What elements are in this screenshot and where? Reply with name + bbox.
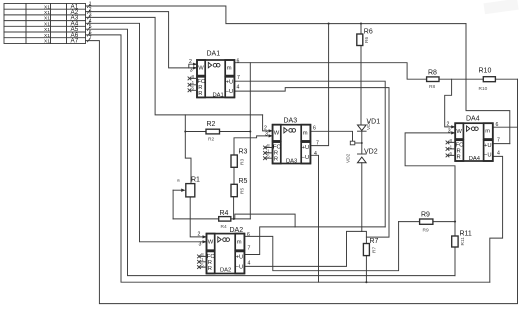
op-amp DA1 <box>189 51 240 99</box>
op-amp DA3 unused pins <box>264 143 273 160</box>
resistor R5 <box>231 178 248 197</box>
op-amp DA3 <box>264 118 319 165</box>
svg-text:4: 4 <box>497 151 500 157</box>
svg-text:2: 2 <box>189 59 192 65</box>
wire pin6 bottom run <box>86 35 490 282</box>
wire supply row R8 R10 <box>439 78 518 80</box>
svg-text:1: 1 <box>450 144 453 150</box>
wire DA1 output feedback vertical <box>249 63 251 219</box>
svg-text:R8: R8 <box>429 84 435 90</box>
resistor R2 <box>206 121 220 143</box>
svg-text:6: 6 <box>496 122 499 128</box>
svg-text:R4: R4 <box>221 224 227 230</box>
svg-text:R3: R3 <box>239 149 248 156</box>
svg-text:VD2: VD2 <box>346 153 352 163</box>
svg-text:W: W <box>456 129 462 135</box>
svg-text:W: W <box>274 131 280 137</box>
svg-text:DA3: DA3 <box>284 118 298 125</box>
svg-text:FC: FC <box>456 143 464 149</box>
svg-text:X1: X1 <box>44 4 50 10</box>
svg-text:R8: R8 <box>428 70 437 77</box>
svg-text:5: 5 <box>192 86 195 92</box>
svg-text:DA1: DA1 <box>213 93 224 99</box>
wire R2 line <box>185 131 250 133</box>
svg-text:+U: +U <box>484 143 492 149</box>
svg-text:m: m <box>227 66 232 72</box>
resistor R1 (trimmer) <box>173 177 200 197</box>
wire pin5 long bottom run <box>86 29 456 275</box>
svg-text:R7: R7 <box>372 247 378 253</box>
wire branch to R2 R1 <box>185 115 191 184</box>
op-amp DA4 unused pins <box>446 138 455 157</box>
svg-text:X1: X1 <box>44 39 50 45</box>
svg-text:X1: X1 <box>44 33 50 39</box>
svg-text:R3: R3 <box>240 159 246 165</box>
svg-text:6: 6 <box>247 232 250 238</box>
wire R1 wiper drop <box>172 190 174 219</box>
resistor R10 <box>479 68 496 92</box>
resistor R7 <box>363 238 378 256</box>
wire DA1 output to R8 <box>234 63 426 79</box>
svg-text:2: 2 <box>198 232 201 238</box>
connector X1 row labels <box>44 3 79 44</box>
wire R7 bottom <box>365 256 367 283</box>
svg-text:2: 2 <box>447 122 450 128</box>
op-amp DA4 <box>447 116 501 162</box>
svg-text:1: 1 <box>201 257 204 263</box>
wire R4 node to +U line <box>235 214 295 227</box>
svg-text:3: 3 <box>199 241 202 247</box>
svg-text:DA2: DA2 <box>220 268 231 274</box>
svg-text:VD1: VD1 <box>366 120 372 130</box>
svg-text:DA4: DA4 <box>469 156 481 162</box>
svg-text:+U: +U <box>226 80 234 86</box>
svg-text:R5: R5 <box>239 178 248 185</box>
svg-text:R10: R10 <box>479 86 488 92</box>
wire DA4 +U stub <box>493 143 510 145</box>
svg-text:A7: A7 <box>71 38 79 45</box>
wire DA2 -U to diode node <box>244 231 361 266</box>
svg-text:X1: X1 <box>44 10 50 16</box>
svg-text:X1: X1 <box>44 21 50 27</box>
svg-text:X1: X1 <box>44 27 50 33</box>
svg-text:5: 5 <box>201 263 204 269</box>
wire R9 line <box>399 221 455 223</box>
wire pin3 horizontal run <box>86 17 263 115</box>
svg-text:a: a <box>177 179 180 184</box>
svg-text:DA1: DA1 <box>207 51 221 58</box>
svg-text:R2: R2 <box>207 121 216 128</box>
svg-text:R11: R11 <box>460 237 466 246</box>
svg-text:8: 8 <box>201 252 204 258</box>
wire DA1 -U run <box>234 88 389 238</box>
wire pin4 to DA2 pin3 <box>86 23 207 242</box>
svg-text:7: 7 <box>248 246 251 252</box>
svg-text:+U: +U <box>236 254 244 260</box>
svg-text:8: 8 <box>267 143 270 149</box>
wire R4 line <box>173 218 250 220</box>
wire socket stub to diode chain <box>355 142 362 144</box>
svg-text:R5: R5 <box>240 188 246 194</box>
wire bottom right shelf <box>490 156 503 282</box>
svg-text:+U: +U <box>302 145 310 151</box>
svg-text:3: 3 <box>448 129 451 135</box>
wire DA1 +U run <box>234 81 385 227</box>
wire pin2 to DA1 input <box>86 12 198 68</box>
svg-text:3: 3 <box>265 132 268 138</box>
svg-text:5: 5 <box>450 151 453 157</box>
svg-text:6: 6 <box>313 126 316 132</box>
svg-text:R: R <box>198 91 202 97</box>
wire DA4 pin3 loop <box>405 133 455 236</box>
svg-text:R2: R2 <box>208 137 214 143</box>
wire diode jog to R7 <box>362 231 367 243</box>
wire diode chain <box>360 24 363 232</box>
op-amp DA2 <box>198 227 251 274</box>
socket test point <box>350 141 355 145</box>
resistor R9 <box>420 212 433 234</box>
svg-text:R6: R6 <box>364 37 370 43</box>
connector X1 table <box>4 4 86 44</box>
diode VD1 <box>358 119 381 132</box>
svg-text:FC: FC <box>273 144 281 150</box>
wire R3 R5 link <box>233 167 235 184</box>
svg-text:5: 5 <box>267 154 270 160</box>
resistor R11 <box>452 231 472 248</box>
wire top bus drop right <box>466 24 510 144</box>
resistor R4 <box>219 210 231 230</box>
svg-text:W: W <box>198 65 204 71</box>
svg-text:R: R <box>208 266 212 272</box>
wire R5 bottom lead <box>233 197 235 219</box>
svg-text:−U: −U <box>302 155 310 161</box>
diode VD2 <box>346 149 378 164</box>
wire DA3 output to socket <box>311 131 353 141</box>
svg-text:R1: R1 <box>191 177 200 184</box>
svg-text:7: 7 <box>237 75 240 81</box>
svg-text:−U: −U <box>226 89 234 95</box>
smudge artifact top right <box>483 0 518 14</box>
wire DA4 output <box>493 126 518 128</box>
svg-text:1: 1 <box>267 148 270 154</box>
wire DA2 output drop <box>244 222 398 271</box>
svg-text:DA4: DA4 <box>466 116 480 123</box>
svg-text:R9: R9 <box>421 212 430 219</box>
svg-text:R7: R7 <box>370 238 379 245</box>
wire +U link to DA2 <box>244 227 385 255</box>
wire R1 bottom to DA2 pin2 <box>190 197 206 237</box>
connector pin ticks and numbers <box>87 1 92 42</box>
svg-text:m: m <box>303 130 308 136</box>
resistor R3 <box>231 149 248 168</box>
wire DA3 -U drop <box>311 155 319 282</box>
svg-text:4: 4 <box>237 85 240 91</box>
svg-text:7: 7 <box>497 138 500 144</box>
resistor R8 <box>427 70 439 91</box>
svg-text:8: 8 <box>192 74 195 80</box>
svg-text:8: 8 <box>450 138 453 144</box>
svg-text:R11: R11 <box>460 231 472 238</box>
wire R8 R10 node to DA4 pin2 <box>445 79 456 127</box>
svg-text:FC: FC <box>197 79 205 85</box>
svg-text:7: 7 <box>316 141 319 147</box>
svg-text:6: 6 <box>237 59 240 65</box>
wire DA1 input junction vertical <box>189 64 197 68</box>
svg-text:X1: X1 <box>44 16 50 22</box>
svg-text:R10: R10 <box>479 68 492 75</box>
wire R11 bottom lead <box>454 247 456 276</box>
svg-text:R9: R9 <box>423 228 429 234</box>
svg-text:R: R <box>457 155 461 161</box>
svg-text:R: R <box>274 157 278 163</box>
svg-text:m: m <box>237 240 242 246</box>
svg-text:3: 3 <box>190 67 193 73</box>
resistor R6 <box>357 29 373 46</box>
svg-text:4: 4 <box>248 261 251 267</box>
wire DA3 pin2 drop <box>263 115 273 131</box>
svg-text:DA3: DA3 <box>286 159 297 165</box>
svg-text:1: 1 <box>192 80 195 86</box>
op-amp DA1 unused pins <box>188 74 197 92</box>
wire pin1 to top bus <box>86 6 467 24</box>
svg-text:FC: FC <box>207 254 215 260</box>
svg-text:R4: R4 <box>220 210 229 217</box>
svg-text:4: 4 <box>314 151 317 157</box>
wire pin7 bottom-most run <box>86 41 518 304</box>
svg-text:VD2: VD2 <box>364 149 378 156</box>
svg-text:−U: −U <box>484 153 492 159</box>
svg-text:m: m <box>485 129 490 135</box>
wire DA3 input pin3 to R3 <box>234 136 273 155</box>
wire DA3 +U riser <box>311 24 329 146</box>
svg-text:W: W <box>208 240 214 246</box>
svg-text:R6: R6 <box>364 29 373 36</box>
svg-text:−U: −U <box>236 265 244 271</box>
op-amp DA2 unused pins <box>198 252 207 269</box>
